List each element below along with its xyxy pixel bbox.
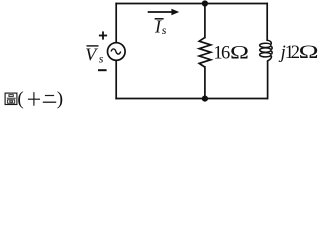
label Is (phasor current)	[154, 17, 167, 37]
label 16 ohm	[213, 42, 249, 64]
label Vs (phasor voltage)	[85, 44, 104, 65]
svg-text:V: V	[85, 44, 98, 64]
wire left upper	[115, 4, 117, 43]
wire right upper	[266, 4, 268, 41]
caption 圖(十二) : figure (twelve)	[5, 89, 63, 110]
svg-text:Ω: Ω	[299, 41, 319, 62]
svg-text:s: s	[162, 23, 167, 37]
wire middle lower	[204, 67, 206, 99]
svg-text:): )	[57, 89, 63, 110]
svg-text:(: (	[17, 89, 23, 110]
resistor 16ohm (zigzag)	[199, 37, 211, 67]
wire bottom	[116, 98, 267, 100]
caption glyph 二	[43, 96, 56, 103]
current arrow Is	[148, 9, 180, 15]
caption glyph 十	[28, 92, 40, 106]
wire left lower	[115, 61, 117, 99]
voltage source Vs	[108, 43, 126, 61]
svg-text:Ω: Ω	[230, 42, 249, 63]
wire right lower	[267, 62, 269, 99]
inductor j12ohm (coil)	[260, 40, 272, 62]
caption glyph 圖	[5, 93, 17, 104]
label + (source polarity)	[99, 31, 107, 39]
svg-text:s: s	[99, 51, 104, 65]
svg-text:6: 6	[221, 44, 230, 64]
junction dot bottom	[202, 96, 208, 102]
wire middle upper	[204, 4, 206, 38]
label j12 ohm	[279, 41, 319, 63]
junction dot top (node between source, R and L branch)	[202, 0, 208, 6]
svg-text:I: I	[154, 17, 162, 37]
label - (source polarity)	[98, 69, 107, 71]
wire top	[116, 3, 267, 5]
